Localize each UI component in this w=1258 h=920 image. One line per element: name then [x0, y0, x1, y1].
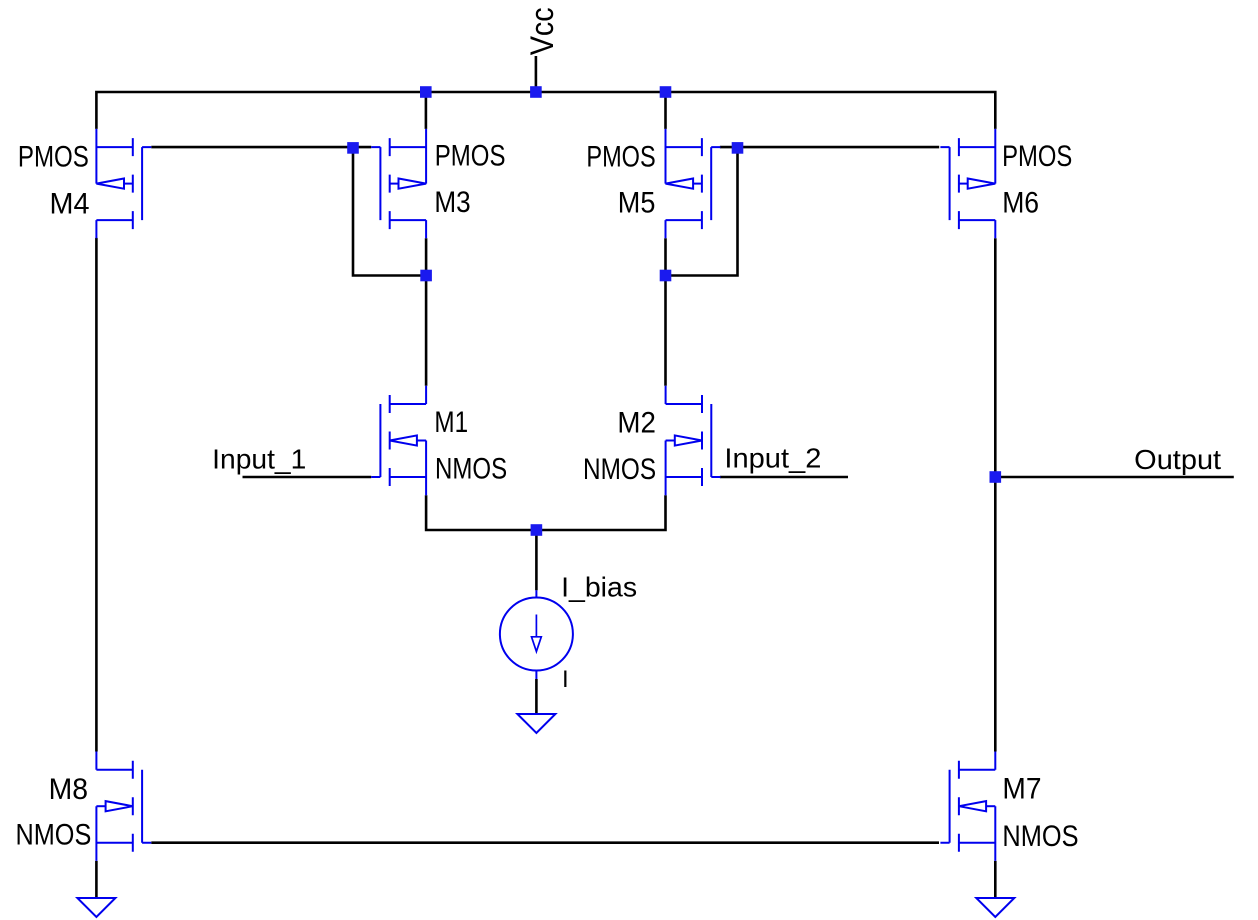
svg-text:I: I: [562, 666, 569, 693]
ground below M8: [77, 898, 115, 917]
svg-text:NMOS: NMOS: [435, 453, 507, 486]
junction M4-M3 gates: [347, 142, 359, 154]
svg-text:M8: M8: [49, 773, 88, 806]
junction M5 drain tie: [660, 270, 672, 282]
wire M8 source to ground: [95, 861, 98, 898]
svg-text:M6: M6: [1002, 187, 1039, 220]
junction rail-Vcc: [530, 86, 542, 98]
svg-text:Input_1: Input_1: [212, 443, 306, 474]
svg-text:Output: Output: [1134, 444, 1221, 475]
transistor M5: [666, 129, 721, 238]
transistor M8: [96, 752, 151, 861]
wire M4 drain to M8 drain: [95, 238, 98, 752]
svg-text:M4: M4: [50, 187, 90, 220]
wire M3 gate-drain tie: [353, 147, 426, 275]
wire Input_2: [720, 476, 848, 479]
wire M3 drain to M1 drain: [425, 238, 428, 385]
wire M4 gate to M3 gate: [151, 146, 371, 149]
transistor M1: [371, 386, 426, 495]
wire M3 source to rail: [425, 92, 428, 129]
svg-text:M2: M2: [617, 406, 656, 439]
transistor M7: [940, 752, 995, 861]
svg-text:M7: M7: [1002, 772, 1041, 805]
junction output: [990, 471, 1002, 483]
transistor M6: [940, 129, 995, 238]
svg-text:PMOS: PMOS: [435, 140, 506, 173]
svg-text:I_bias: I_bias: [561, 571, 637, 602]
wire M8 gate to M7 gate: [151, 841, 939, 844]
svg-text:Input_2: Input_2: [724, 443, 821, 474]
current source I_bias: [500, 590, 573, 679]
wire M1 source to M2 source tail: [426, 495, 665, 530]
junction tail: [531, 524, 543, 536]
ground below current source: [517, 714, 555, 733]
wire M5 gate-drain tie: [666, 147, 738, 275]
wire Vcc rail top: [96, 92, 995, 129]
transistor M3: [371, 129, 426, 238]
svg-text:M3: M3: [434, 186, 470, 219]
junction M5-M6 gates: [732, 142, 744, 154]
svg-text:NMOS: NMOS: [583, 453, 656, 486]
wire tail to current source: [535, 530, 538, 590]
wire Input_1: [243, 476, 372, 479]
wire M5 drain to M2 drain: [664, 238, 667, 385]
junction M3 drain tie: [420, 270, 432, 282]
wire M5 source to rail: [664, 92, 667, 129]
svg-text:NMOS: NMOS: [1002, 820, 1078, 853]
wire current source to ground: [535, 679, 538, 714]
svg-text:M1: M1: [434, 406, 468, 439]
transistor M4: [96, 129, 151, 238]
svg-text:PMOS: PMOS: [586, 140, 655, 173]
wire M5 gate to M6 gate: [720, 146, 939, 149]
wire M6 drain to M7 drain: [994, 238, 997, 751]
wire Output: [995, 476, 1234, 479]
svg-text:M5: M5: [618, 187, 656, 220]
wire M7 source to ground: [994, 861, 997, 898]
wire Vcc stub: [535, 56, 538, 92]
svg-text:PMOS: PMOS: [18, 140, 89, 173]
transistor M2: [666, 386, 721, 495]
junction rail-M3: [420, 86, 432, 98]
ground below M7: [976, 898, 1014, 917]
svg-text:PMOS: PMOS: [1002, 140, 1072, 173]
svg-text:Vcc: Vcc: [524, 7, 560, 55]
junction rail-M5: [660, 86, 672, 98]
svg-text:NMOS: NMOS: [16, 819, 92, 852]
